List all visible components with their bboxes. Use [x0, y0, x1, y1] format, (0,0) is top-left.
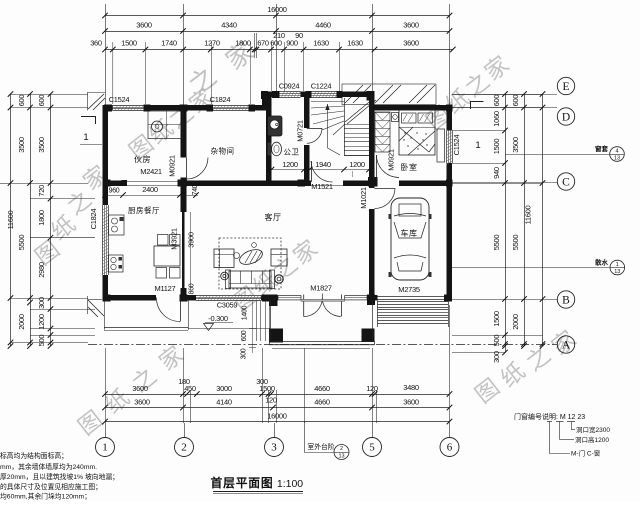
svg-text:A: A	[562, 340, 571, 352]
svg-text:C1824: C1824	[210, 95, 231, 104]
svg-text:13: 13	[614, 269, 620, 275]
svg-text:E: E	[562, 81, 569, 93]
svg-text:M1827: M1827	[310, 284, 332, 293]
svg-text:16000: 16000	[267, 5, 286, 14]
svg-text:厨房餐厅: 厨房餐厅	[128, 205, 160, 215]
svg-text:5500: 5500	[17, 235, 26, 251]
svg-text:6: 6	[447, 442, 453, 454]
svg-text:1: 1	[102, 442, 108, 454]
svg-text:4660: 4660	[314, 398, 330, 407]
svg-text:室外台阶: 室外台阶	[307, 442, 334, 451]
svg-text:5500: 5500	[492, 235, 501, 251]
svg-text:4340: 4340	[221, 20, 237, 29]
svg-text:300: 300	[492, 351, 501, 363]
svg-text:1200: 1200	[349, 160, 365, 169]
svg-text:3500: 3500	[17, 137, 26, 153]
svg-text:C: C	[562, 177, 570, 189]
svg-text:600: 600	[37, 95, 46, 107]
svg-text:洞口宽2300: 洞口宽2300	[576, 425, 610, 434]
svg-text:C1524: C1524	[109, 95, 130, 104]
svg-text:90: 90	[295, 31, 303, 40]
svg-text:1200: 1200	[37, 314, 46, 330]
svg-text:960: 960	[109, 188, 120, 195]
svg-text:3500: 3500	[37, 137, 46, 153]
svg-text:均60mm,其余门垛均120mm；: 均60mm,其余门垛均120mm；	[0, 492, 91, 501]
svg-text:1200: 1200	[282, 160, 298, 169]
svg-text:的具体尺寸及位置见相应施工图；: 的具体尺寸及位置见相应施工图；	[0, 482, 102, 491]
svg-text:300: 300	[37, 297, 46, 309]
svg-text:2000: 2000	[511, 314, 520, 330]
svg-text:5: 5	[369, 442, 375, 454]
svg-text:1630: 1630	[347, 38, 363, 47]
svg-text:M0921: M0921	[168, 155, 177, 177]
svg-text:360: 360	[90, 38, 102, 47]
svg-text:2: 2	[340, 446, 343, 452]
svg-text:1740: 1740	[161, 38, 177, 47]
svg-text:洞口高1200: 洞口高1200	[575, 435, 609, 444]
svg-text:600: 600	[492, 95, 501, 107]
svg-text:860: 860	[189, 283, 196, 294]
svg-text:车库: 车库	[401, 228, 418, 238]
svg-text:1: 1	[616, 262, 619, 268]
svg-text:600: 600	[241, 330, 248, 341]
svg-text:3500: 3500	[511, 137, 520, 153]
svg-text:1060: 1060	[492, 111, 501, 127]
svg-text:300: 300	[241, 348, 248, 359]
svg-text:16000: 16000	[267, 412, 286, 421]
svg-text:940: 940	[492, 167, 501, 179]
svg-text:2000: 2000	[17, 314, 26, 330]
svg-text:450: 450	[184, 384, 196, 393]
svg-text:M1127: M1127	[155, 284, 176, 293]
svg-text:3600: 3600	[136, 20, 152, 29]
svg-text:D: D	[562, 112, 570, 124]
svg-text:卧室: 卧室	[401, 162, 418, 172]
svg-text:4: 4	[615, 148, 618, 154]
svg-text:11600: 11600	[524, 205, 533, 224]
svg-text:C1524: C1524	[452, 135, 461, 156]
svg-text:2400: 2400	[142, 185, 158, 194]
svg-text:1800: 1800	[235, 38, 251, 47]
svg-text:M1521: M1521	[311, 182, 333, 191]
svg-text:C1224: C1224	[311, 82, 332, 91]
svg-text:4660: 4660	[314, 384, 330, 393]
svg-text:13: 13	[338, 454, 344, 460]
svg-text:1800: 1800	[37, 210, 46, 226]
svg-text:1500: 1500	[121, 38, 137, 47]
svg-text:2980: 2980	[37, 262, 46, 278]
svg-text:1500: 1500	[492, 139, 501, 155]
svg-text:伙房: 伙房	[134, 154, 151, 164]
svg-text:2: 2	[181, 442, 187, 454]
svg-text:1270: 1270	[204, 38, 220, 47]
svg-text:3: 3	[271, 442, 277, 454]
svg-text:公卫: 公卫	[284, 148, 300, 157]
svg-text:3000: 3000	[216, 384, 232, 393]
svg-text:3480: 3480	[403, 383, 419, 392]
svg-text:首层平面图: 首层平面图	[211, 476, 274, 490]
svg-text:M3921: M3921	[170, 228, 179, 250]
svg-text:厚20mm，且以建筑找坡1% 坡向地漏；: 厚20mm，且以建筑找坡1% 坡向地漏；	[0, 472, 119, 481]
svg-text:3900: 3900	[187, 232, 196, 248]
svg-text:1400: 1400	[242, 305, 249, 320]
svg-text:600: 600	[511, 95, 520, 107]
svg-text:M1021: M1021	[359, 187, 368, 209]
svg-text:13: 13	[614, 156, 620, 162]
svg-text:C0924: C0924	[279, 82, 300, 91]
svg-text:670: 670	[257, 38, 269, 47]
svg-text:500: 500	[37, 335, 46, 347]
svg-text:客厅: 客厅	[265, 212, 282, 222]
svg-text:mm，其余墙体墙厚均为240mm.: mm，其余墙体墙厚均为240mm.	[0, 462, 97, 471]
svg-text:1940: 1940	[315, 160, 331, 169]
svg-text:1500: 1500	[259, 384, 275, 393]
svg-text:门窗编号说明: M 12 23: 门窗编号说明: M 12 23	[514, 412, 585, 421]
svg-text:600: 600	[17, 95, 26, 107]
svg-text:740: 740	[192, 184, 199, 195]
svg-text:标高均为结构面标高；: 标高均为结构面标高；	[0, 451, 68, 460]
svg-text:3600: 3600	[132, 384, 148, 393]
svg-text:3600: 3600	[134, 398, 150, 407]
svg-text:4460: 4460	[315, 20, 331, 29]
svg-text:B: B	[562, 295, 570, 307]
svg-text:M-门 C-窗: M-门 C-窗	[571, 449, 600, 458]
svg-text:5500: 5500	[511, 235, 520, 251]
svg-text:1:100: 1:100	[277, 478, 303, 490]
svg-text:1500: 1500	[492, 311, 501, 327]
svg-text:4140: 4140	[216, 398, 232, 407]
svg-text:M0921: M0921	[387, 149, 396, 171]
svg-text:1: 1	[475, 140, 480, 151]
svg-text:120: 120	[366, 384, 378, 393]
svg-text:杂物间: 杂物间	[211, 146, 235, 156]
svg-text:3600: 3600	[403, 398, 419, 407]
svg-text:3600: 3600	[403, 38, 419, 47]
svg-text:3600: 3600	[403, 20, 419, 29]
svg-text:M2735: M2735	[398, 285, 420, 294]
svg-text:散水: 散水	[595, 258, 609, 267]
svg-text:-0.300: -0.300	[208, 314, 228, 323]
svg-text:M2421: M2421	[140, 167, 162, 176]
svg-text:M0721: M0721	[296, 120, 305, 142]
svg-text:1630: 1630	[313, 38, 329, 47]
svg-text:120: 120	[265, 396, 277, 405]
svg-text:窗套: 窗套	[595, 144, 609, 153]
svg-text:1: 1	[83, 132, 88, 143]
svg-text:C3059: C3059	[217, 301, 238, 310]
svg-text:C1824: C1824	[89, 209, 98, 230]
svg-text:720: 720	[37, 185, 46, 197]
svg-text:11600: 11600	[6, 210, 15, 229]
